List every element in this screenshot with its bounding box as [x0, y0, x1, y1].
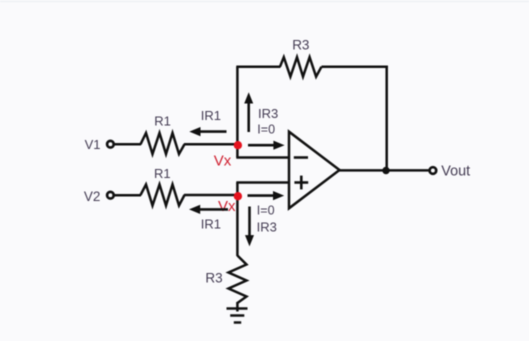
svg-text:IR1: IR1: [201, 108, 221, 123]
wire top feedback left segment: [236, 65, 280, 68]
node Vx top (red dot): [234, 141, 242, 149]
resistor R1 (top): [141, 133, 185, 154]
svg-text:R1: R1: [154, 166, 171, 181]
wire V1 to R1: [114, 143, 141, 146]
op-amp minus sign: [294, 156, 308, 159]
arrow IR1 (bottom, pointing left): [189, 205, 228, 214]
svg-text:R1: R1: [154, 113, 171, 128]
ground: [227, 302, 248, 323]
arrow IR3 (up, near top node): [244, 92, 253, 132]
wire node Vx down to R3 (bottom): [236, 195, 239, 256]
op-amp plus sign: [294, 176, 308, 190]
svg-text:Vout: Vout: [441, 163, 470, 179]
svg-text:IR3: IR3: [258, 106, 278, 121]
resistor R1 (bottom): [141, 185, 185, 206]
terminal Vout: [430, 167, 437, 174]
svg-text:I=0: I=0: [257, 204, 275, 218]
svg-text:R3: R3: [292, 37, 309, 52]
wire op-amp output to Vout: [339, 169, 430, 172]
svg-text:IR1: IR1: [201, 217, 221, 232]
wire feedback right vertical (down to output node): [385, 66, 388, 171]
arrow IR1 (top, pointing left): [189, 127, 226, 136]
arrow into minus input (right): [248, 141, 285, 150]
svg-text:I=0: I=0: [257, 123, 275, 137]
arrow IR3 (down, near bottom node): [245, 207, 254, 247]
node Vx bottom (red dot): [234, 192, 242, 200]
resistor R3 (bottom, vertical): [229, 256, 247, 304]
node output junction (dot): [382, 167, 389, 174]
op-amp U1 triangle: [289, 132, 340, 209]
svg-text:V2: V2: [84, 189, 101, 204]
terminal V2: [107, 192, 114, 199]
svg-text:IR3: IR3: [257, 219, 277, 234]
svg-text:Vx: Vx: [218, 198, 236, 215]
svg-text:V1: V1: [85, 137, 101, 152]
arrow into plus input (right): [248, 191, 285, 200]
wire V2 to R1: [114, 194, 141, 197]
wire minus input (node to op-amp): [236, 156, 290, 159]
wire top feedback right segment: [322, 65, 388, 68]
wire R1 to node Vx (bottom): [184, 194, 238, 197]
terminal V1: [107, 141, 114, 148]
wire R1 to node Vx (top): [184, 143, 238, 146]
wire feedback left vertical (node Vx up to R3 row): [236, 67, 239, 158]
resistor R3 (feedback): [280, 57, 322, 76]
svg-text:R3: R3: [205, 270, 222, 285]
wire plus input (to op-amp): [236, 181, 290, 184]
svg-text:Vx: Vx: [214, 152, 232, 169]
wire plus input vertical jog: [236, 183, 239, 197]
